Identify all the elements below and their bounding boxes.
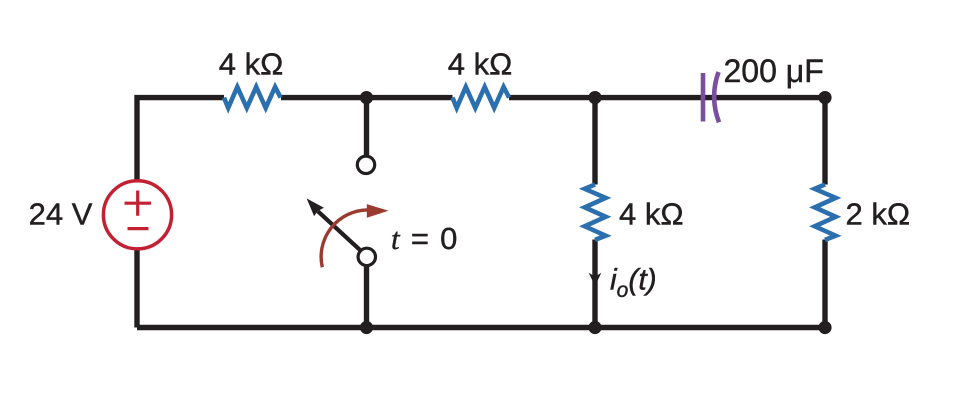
node top-right — [818, 91, 831, 104]
resistor R4 2k (right vertical) — [815, 185, 836, 240]
resistor R2 4k (top middle) — [453, 87, 510, 108]
node top-switch — [360, 91, 373, 104]
capacitor C1 left plate — [701, 73, 706, 122]
wire: top right segment R2 through capacitor to right rail — [509, 95, 825, 100]
wire: bottom rail — [137, 325, 825, 330]
node bottom-right — [818, 321, 831, 334]
switch SW1 upper contact circle — [357, 156, 374, 173]
wire: switch upper stub — [364, 98, 369, 156]
voltage source V1 24V circle — [103, 181, 171, 249]
switch SW1 blade — [318, 211, 360, 250]
svg-text:4 kΩ: 4 kΩ — [448, 47, 513, 82]
node top-middle — [588, 91, 601, 104]
switch SW1 pivot circle — [358, 248, 375, 265]
switch action arc (maroon) — [321, 210, 367, 267]
node bottom-middle — [588, 321, 601, 334]
svg-text:4 kΩ: 4 kΩ — [219, 47, 284, 82]
wire: top-left segment from source to R1 — [137, 98, 224, 328]
wire: right rail upper (node to R4) — [822, 98, 827, 185]
svg-text:2 kΩ: 2 kΩ — [846, 197, 911, 232]
wire: middle rail lower (R3 to bottom) — [592, 240, 597, 328]
resistor R1 4k (top left) — [224, 87, 281, 108]
resistor R3 4k (middle vertical) — [585, 185, 606, 240]
svg-text:t = 0: t = 0 — [391, 221, 459, 256]
wire: middle rail upper (node to R3) — [592, 98, 597, 185]
node bottom-switch — [360, 321, 373, 334]
switch SW1 blade arrowhead — [307, 198, 324, 216]
switch action arc arrowhead (maroon) — [367, 204, 389, 218]
current arrow i_o(t) on middle rail — [589, 273, 602, 286]
wire: top middle segment R1 to R2 — [281, 95, 453, 100]
svg-text:io(t): io(t) — [610, 264, 657, 303]
capacitor C1 curved plate — [714, 72, 719, 122]
svg-text:4 kΩ: 4 kΩ — [619, 197, 684, 232]
wire: right rail lower (R4 to bottom) — [822, 240, 827, 328]
svg-text:24 V: 24 V — [29, 197, 93, 232]
wire: switch lower stub — [364, 267, 369, 328]
svg-text:200 μF: 200 μF — [724, 53, 824, 89]
